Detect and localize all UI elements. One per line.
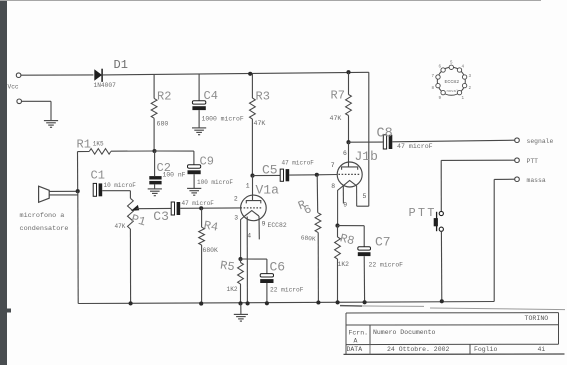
capacitor C4 — [192, 74, 205, 127]
node C7-bus — [363, 300, 367, 304]
label 47K r7 — [330, 115, 342, 122]
title date — [387, 346, 450, 353]
svg-text:47 microF: 47 microF — [282, 160, 315, 167]
label 100 nF — [163, 171, 186, 178]
wire cathode to C7 — [338, 225, 365, 227]
capacitor C2 — [149, 151, 161, 189]
switch PTT contact bottom — [439, 227, 443, 231]
svg-text:4i: 4i — [538, 346, 546, 353]
V1a plate — [246, 201, 260, 204]
svg-text:1K2: 1K2 — [227, 286, 238, 293]
node C3-R4 — [199, 206, 203, 210]
pot P1 wiper arrow — [131, 205, 139, 211]
wire junction to C9 — [155, 151, 194, 165]
label R8 — [338, 231, 355, 248]
svg-text:massa: massa — [527, 177, 546, 184]
svg-text:9: 9 — [262, 221, 266, 228]
wire cathode to C6 — [241, 259, 267, 274]
resistor R6 — [315, 175, 321, 303]
node R2 bottom junction — [152, 149, 156, 153]
scan top edge line — [0, 0, 541, 2]
label 100 microF — [197, 179, 233, 186]
svg-text:ECC82: ECC82 — [445, 79, 460, 85]
svg-text:5: 5 — [363, 193, 367, 200]
svg-text:condensatore: condensatore — [20, 225, 69, 233]
svg-text:noval: noval — [447, 89, 459, 94]
svg-text:10 microF: 10 microF — [104, 182, 137, 189]
svg-text:C1: C1 — [91, 168, 105, 182]
terminal gnd input — [17, 99, 22, 104]
J1b cathode — [343, 180, 356, 185]
svg-text:C5: C5 — [262, 162, 278, 177]
pin 4 V1a — [247, 233, 251, 240]
switch PTT contact top — [439, 211, 443, 215]
label 10 microF — [104, 182, 137, 189]
terminal segnale — [515, 138, 520, 143]
label R2 — [157, 90, 171, 104]
wire plate to C8 — [349, 141, 384, 143]
svg-text:47K: 47K — [330, 115, 342, 122]
wire left ground leg — [77, 191, 79, 303]
svg-text:4: 4 — [247, 233, 251, 240]
V1a cathode — [245, 211, 259, 216]
wire Vcc to diode — [21, 74, 94, 76]
svg-text:Foglio: Foglio — [474, 346, 498, 353]
label microfono a — [20, 212, 65, 220]
node R6-bus — [316, 300, 320, 304]
pin 1 V1a — [246, 183, 250, 190]
potentiometer P1 — [128, 198, 134, 303]
svg-text:22 microF: 22 microF — [270, 287, 304, 294]
pin 6 J1b — [343, 150, 347, 157]
node V1a plate junction — [250, 174, 254, 178]
node J1b cathode junction — [335, 224, 339, 228]
terminal massa — [515, 177, 520, 182]
label 22 microF c6 — [270, 287, 304, 294]
node bus-R7 — [346, 70, 350, 74]
wire C3 to grid — [180, 207, 240, 209]
svg-text:47 microF: 47 microF — [397, 143, 433, 150]
title TORINO — [525, 315, 549, 322]
svg-text:R7: R7 — [331, 88, 345, 102]
svg-text:47K: 47K — [254, 120, 266, 127]
label C2 — [157, 161, 171, 175]
label 1N4007 — [94, 82, 117, 89]
ground G1 — [44, 121, 58, 128]
resistor R2 — [151, 74, 157, 151]
label 1K2 r5 — [227, 286, 238, 293]
label R1 — [77, 137, 91, 151]
resistor R4 — [199, 208, 205, 303]
label segnale — [527, 138, 554, 145]
microphone symbol — [39, 186, 50, 202]
svg-text:J1b: J1b — [355, 149, 378, 164]
title Foglio — [474, 346, 498, 353]
svg-text:R5: R5 — [219, 259, 235, 275]
title Fcrn — [349, 329, 369, 336]
label 680K r6 — [300, 234, 316, 243]
label condensatore — [20, 225, 69, 233]
resistor R3 — [250, 74, 256, 176]
pin 8 J1b — [331, 183, 335, 190]
capacitor C5 — [280, 169, 289, 181]
label PTT switch — [409, 206, 437, 220]
wire C1 to pot — [102, 191, 130, 199]
label C8 — [377, 126, 393, 141]
capacitor C8 — [383, 135, 392, 149]
tube V1a envelope — [241, 195, 267, 221]
svg-text:Vcc: Vcc — [8, 84, 19, 91]
label 680K r4 — [203, 247, 219, 254]
node R4-bus — [199, 302, 203, 306]
svg-text:C3: C3 — [153, 209, 169, 224]
svg-text:2: 2 — [234, 196, 238, 203]
node pot-bus — [129, 301, 133, 305]
pin 2 V1a — [234, 196, 238, 203]
svg-text:C4: C4 — [204, 89, 218, 103]
label 47 microF c8 — [397, 143, 433, 150]
title Numero Documento — [373, 329, 436, 336]
label R3 — [256, 89, 270, 103]
wire R1 left leg — [77, 152, 79, 192]
label C5 — [262, 162, 278, 177]
wire terminal to ground — [22, 101, 52, 120]
wire PTT — [441, 160, 514, 211]
node V1a cathode junction — [238, 257, 242, 261]
capacitor C9 — [188, 165, 201, 188]
svg-text:1N4007: 1N4007 — [94, 82, 117, 89]
label C1 — [91, 168, 105, 182]
svg-text:C9: C9 — [200, 155, 214, 169]
diode D1 — [94, 69, 102, 82]
node C6-bus — [265, 301, 269, 305]
label 1K2 r8 — [338, 261, 350, 268]
ground G3 — [187, 188, 201, 195]
J1b cathode lead pin8 — [338, 186, 344, 226]
svg-text:1K2: 1K2 — [338, 261, 350, 268]
label 1K5 — [93, 140, 104, 147]
label 1000 microF — [202, 115, 244, 122]
ground G4 — [192, 128, 206, 135]
label P1 — [130, 212, 148, 229]
wire supply bus — [103, 72, 369, 75]
label massa — [527, 177, 546, 184]
svg-text:7: 7 — [331, 162, 335, 169]
label Vcc — [8, 84, 19, 91]
label C4 — [204, 89, 218, 103]
label 47 microF c3 — [182, 200, 215, 207]
svg-text:47 microF: 47 microF — [182, 200, 215, 207]
label D1 — [114, 58, 128, 72]
svg-text:D1: D1 — [114, 58, 128, 72]
svg-text:1K5: 1K5 — [93, 140, 104, 147]
svg-text:1: 1 — [246, 183, 250, 190]
label C7 — [375, 234, 391, 249]
node R8-bus — [336, 300, 340, 304]
label 47K p1 — [115, 223, 126, 230]
label R6 — [292, 195, 318, 220]
capacitor C1 — [93, 183, 102, 196]
svg-text:3: 3 — [234, 215, 238, 222]
title 4i — [538, 346, 546, 353]
wire ground bus — [78, 302, 494, 304]
svg-text:680: 680 — [157, 121, 169, 128]
pin 5 J1b — [363, 193, 367, 200]
J1b grid — [338, 173, 359, 175]
svg-text:V1a: V1a — [256, 182, 280, 197]
svg-text:47K: 47K — [115, 223, 126, 230]
label 22 microF c7 — [369, 262, 404, 269]
wire mic hot — [49, 190, 77, 192]
svg-text:PTT: PTT — [527, 158, 539, 165]
resistor R5 — [238, 259, 244, 303]
resistor R7 — [346, 72, 352, 142]
label R5 — [219, 259, 235, 275]
tube J1b envelope — [337, 162, 362, 187]
title A — [354, 337, 358, 344]
V1a plate lead — [252, 176, 254, 201]
label C9 — [200, 155, 214, 169]
label J1b — [355, 149, 378, 164]
svg-text:100 nF: 100 nF — [163, 171, 186, 178]
svg-text:TORINO: TORINO — [525, 315, 549, 322]
svg-text:R3: R3 — [256, 89, 270, 103]
V1a heater pin4 — [246, 217, 248, 304]
svg-text:100 microF: 100 microF — [197, 179, 233, 186]
title DATA — [347, 346, 363, 353]
wire massa — [494, 179, 514, 301]
label C6 — [270, 260, 286, 275]
title block frame — [340, 306, 565, 355]
label C3 — [153, 209, 169, 224]
svg-text:PTT: PTT — [409, 206, 437, 220]
svg-text:Fcrn.: Fcrn. — [349, 329, 369, 336]
svg-text:680K: 680K — [203, 247, 219, 254]
label 47 microF c5 — [282, 160, 315, 167]
ground G5 — [234, 303, 248, 321]
terminal PTT out — [515, 158, 520, 163]
node heater-bus — [246, 301, 250, 305]
capacitor C3 — [171, 202, 180, 215]
node R5-bus — [238, 301, 242, 305]
ground G2 — [148, 189, 162, 196]
node mic junction — [76, 189, 80, 193]
svg-text:DATA: DATA — [347, 346, 363, 353]
svg-text:C8: C8 — [377, 126, 393, 141]
scan border strip — [0, 0, 11, 365]
capacitor C7 — [358, 226, 371, 303]
label ECC82 v1a — [268, 222, 287, 229]
svg-text:ECC82: ECC82 — [268, 222, 287, 229]
label 680 — [157, 121, 169, 128]
node C5-R6 — [315, 173, 319, 177]
wire C5 to grid J1b — [289, 174, 337, 177]
V1a grid — [240, 207, 261, 209]
node bus-R3 — [248, 72, 252, 76]
svg-text:6: 6 — [343, 150, 347, 157]
J1b heater pin5 — [356, 186, 358, 206]
svg-text:C6: C6 — [270, 260, 286, 275]
wire C8 to segnale — [392, 140, 514, 142]
svg-text:R4: R4 — [203, 218, 220, 234]
pin 9 V1a — [262, 221, 266, 228]
V1a cathode lead pin3 — [241, 216, 245, 259]
pin 3 V1a — [234, 215, 238, 222]
socket pinout ECC82 — [432, 62, 472, 101]
resistor R8 — [335, 226, 341, 303]
terminal Vcc — [16, 73, 21, 78]
node PTT-bus — [440, 299, 444, 303]
pin 7 J1b — [331, 162, 335, 169]
svg-text:Numero Documento: Numero Documento — [373, 329, 436, 336]
wire wiper to C3 — [137, 207, 172, 209]
resistor R1 — [77, 149, 154, 155]
node R7-C8-plate — [346, 140, 350, 144]
svg-text:1000 microF: 1000 microF — [202, 115, 244, 122]
svg-text:A: A — [354, 337, 358, 344]
svg-text:22 microF: 22 microF — [369, 262, 404, 269]
J1b plate lead — [348, 142, 350, 167]
svg-text:8: 8 — [331, 183, 335, 190]
capacitor C6 — [260, 274, 273, 304]
J1b heater pin9 — [342, 186, 344, 203]
svg-text:C7: C7 — [375, 234, 391, 249]
svg-text:segnale: segnale — [527, 138, 554, 145]
label PTT out — [527, 158, 539, 165]
J1b plate — [342, 167, 358, 170]
svg-text:24 Ottobre. 2002: 24 Ottobre. 2002 — [387, 346, 450, 353]
wire bus corner down — [357, 72, 369, 206]
label R4 — [203, 218, 220, 234]
label V1a — [256, 182, 280, 197]
label 47K r3 — [254, 120, 266, 127]
svg-text:R2: R2 — [157, 90, 171, 104]
wire mic return — [49, 194, 78, 196]
pin 9 J1b — [343, 201, 347, 208]
wire plate to C5 — [253, 174, 281, 176]
switch PTT lever — [434, 212, 438, 231]
svg-text:R1: R1 — [77, 137, 91, 151]
svg-text:9: 9 — [343, 201, 347, 208]
wire switch to bus — [440, 231, 442, 301]
V1a heater pin9 — [258, 216, 260, 239]
svg-text:microfono a: microfono a — [20, 212, 65, 220]
label R7 — [331, 88, 345, 102]
